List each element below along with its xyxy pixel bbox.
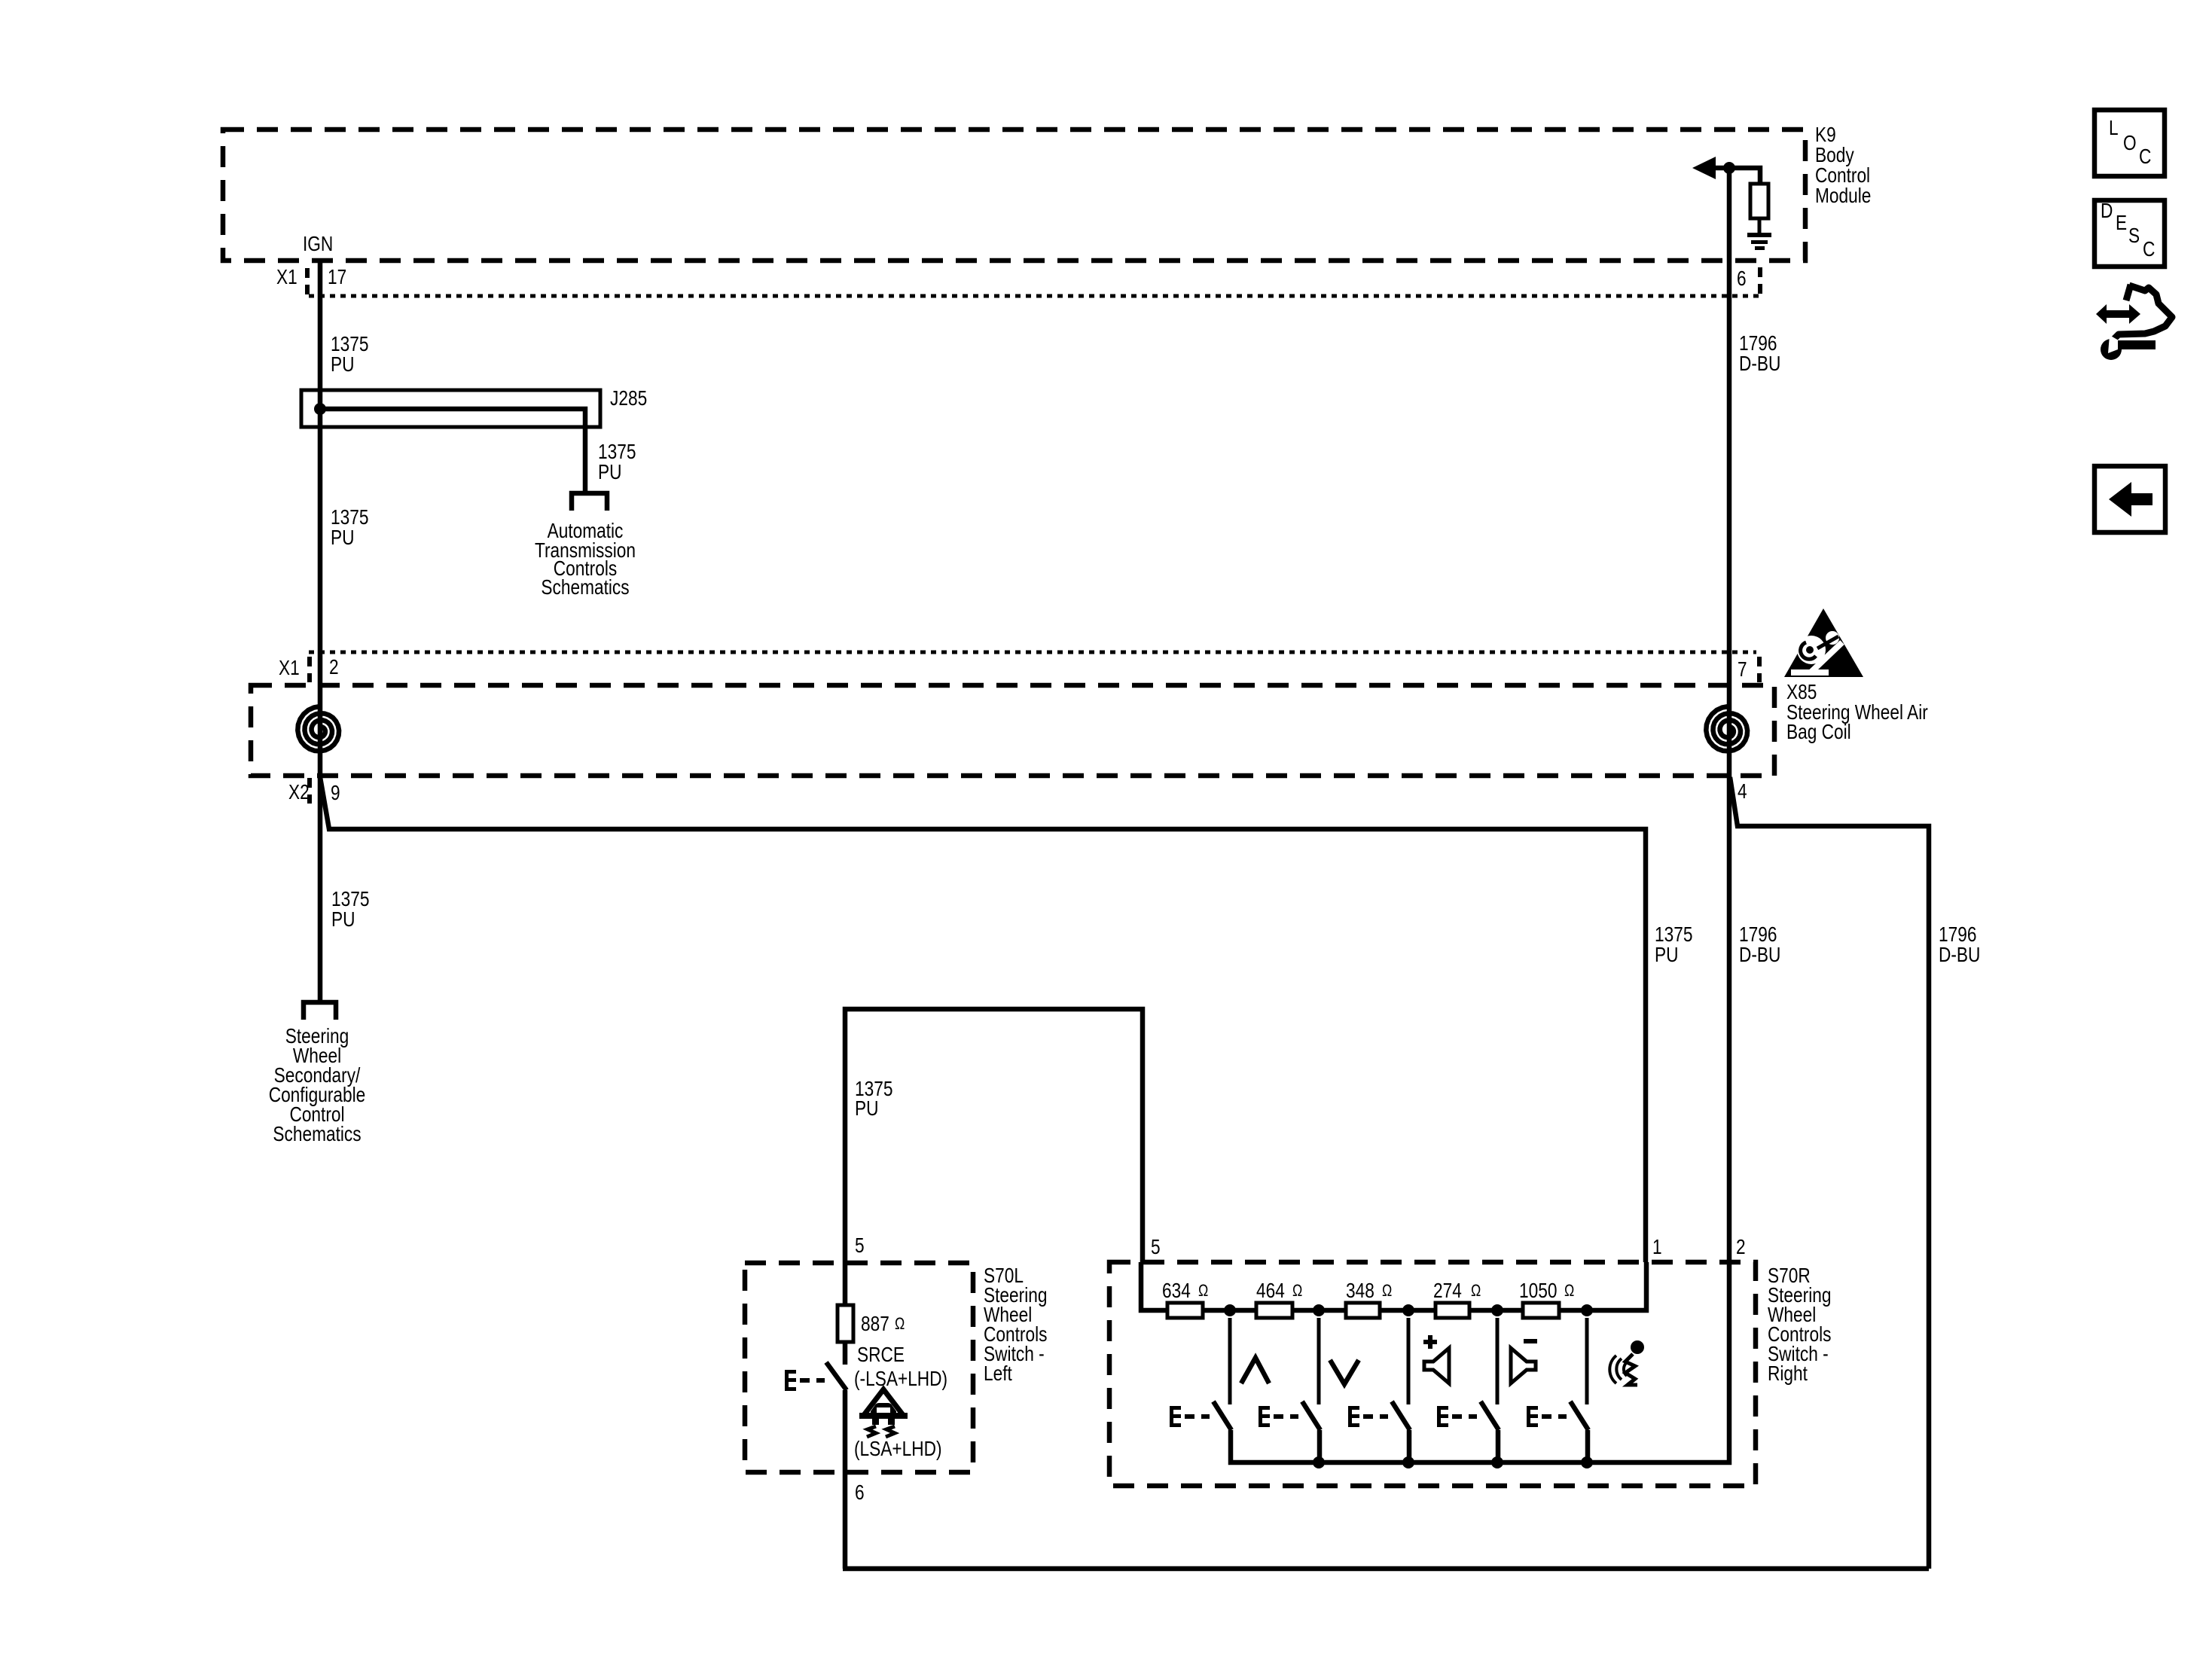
wire: switch to pin 6 and down to bus [843, 1390, 848, 1569]
wire label 1375 PU (S70R pin 1) [1655, 923, 1693, 966]
wire label 1375 PU (below pin 17) [331, 332, 369, 376]
junction dots on ladder [1224, 1304, 1593, 1316]
icon volume up chevron [1241, 1358, 1269, 1383]
wire: S70R pin 5 to resistor ladder to pin 1 [1141, 1262, 1646, 1310]
wire label 1375 PU (J285 branch) [598, 440, 636, 483]
svg-text:Module: Module [1815, 184, 1871, 207]
svg-text:D-BU: D-BU [1739, 352, 1780, 375]
switch SRCE: dashes [800, 1378, 825, 1383]
svg-text:PU: PU [855, 1096, 879, 1120]
switch S70R volume- (x1988) [1437, 1318, 1499, 1462]
label 464 ohm [1256, 1279, 1302, 1302]
label S70R Steering Wheel Controls Switch - Right [1768, 1264, 1832, 1385]
connector X1 row (X85 coil, pins 2/7): dotted line [309, 651, 1756, 654]
svg-text:O: O [2123, 131, 2137, 154]
svg-text:2: 2 [329, 655, 339, 679]
svg-text:Schematics: Schematics [541, 575, 629, 599]
connector X1 mark right (pin 6) [1758, 267, 1762, 294]
wire label 1375 PU (left wire to bracket) [331, 887, 370, 931]
svg-text:D-BU: D-BU [1739, 943, 1780, 966]
mark right (pin 7) [1757, 657, 1762, 682]
DESC letters [2101, 199, 2155, 261]
svg-text:9: 9 [331, 781, 340, 804]
K9 label [1815, 123, 1871, 207]
label 887 ohm [861, 1312, 905, 1335]
svg-text:C: C [2143, 237, 2155, 261]
resistor 1050 ohm [1523, 1303, 1559, 1318]
resistor 634 ohm [1167, 1303, 1203, 1318]
svg-text:Ω: Ω [895, 1314, 905, 1333]
svg-text:2: 2 [1736, 1235, 1746, 1258]
svg-text:PU: PU [331, 352, 355, 376]
svg-text:464: 464 [1256, 1279, 1285, 1302]
svg-text:IGN: IGN [303, 232, 333, 255]
wire resistor to ground [1758, 218, 1762, 234]
svg-text:887: 887 [861, 1312, 889, 1335]
svg-text:J285: J285 [610, 386, 647, 410]
svg-text:Schematics: Schematics [273, 1122, 361, 1145]
junction dot (K9) [1723, 162, 1735, 174]
switch SRCE: E symbol [785, 1370, 796, 1391]
wire: J285 splice branch [320, 409, 585, 491]
off-page bracket: Automatic Transmission Controls Schematics [572, 493, 607, 511]
tools / arrows icon [2096, 285, 2172, 360]
DESC reference box [2095, 200, 2165, 267]
icon volume down chevron [1330, 1360, 1359, 1384]
connector X1 mark left [305, 268, 310, 294]
wire: jumper between S70L pin 5 and S70R pin 5 [845, 1009, 1143, 1263]
svg-text:348: 348 [1346, 1279, 1374, 1302]
icon speaker + [1423, 1335, 1449, 1383]
svg-text:PU: PU [331, 526, 355, 549]
coil spiral right [1706, 706, 1747, 751]
svg-text:D: D [2101, 199, 2113, 222]
splice J285 box [301, 390, 600, 427]
back arrow [2109, 482, 2153, 517]
svg-text:E: E [2116, 211, 2127, 234]
S70L Steering Wheel Controls Switch - Left dashed box [745, 1263, 973, 1472]
label 1050 ohm [1519, 1279, 1574, 1302]
wire label 1796 D-BU (below pin 6) [1739, 331, 1780, 375]
resistor (K9 internal) [1750, 184, 1768, 218]
svg-text:Left: Left [984, 1362, 1012, 1385]
coil spiral left [297, 706, 339, 751]
svg-text:SRCE: SRCE [857, 1343, 905, 1366]
svg-text:6: 6 [855, 1481, 865, 1504]
switch S70R volume down (x1751) [1259, 1318, 1320, 1462]
svg-text:D-BU: D-BU [1939, 943, 1980, 966]
svg-text:X1: X1 [276, 265, 297, 288]
svg-text:Bag Coil: Bag Coil [1786, 720, 1851, 743]
LOC reference box [2095, 110, 2165, 176]
svg-text:17: 17 [328, 265, 346, 288]
svg-text:Ω: Ω [1198, 1281, 1208, 1300]
wire label 1375 PU (left wire below J285) [331, 505, 369, 549]
back arrow box [2095, 466, 2165, 532]
wire: S70L pin 5 through switch to pin 6 and bottom bus [843, 1263, 848, 1365]
wire: K9 pin 6 output, down through X85 coil to S70R pin 2 [1727, 168, 1732, 1262]
svg-text:274: 274 [1433, 1279, 1462, 1302]
resistor 464 ohm [1256, 1303, 1292, 1318]
resistor 348 ohm [1346, 1303, 1380, 1318]
connector X2 mark left (pin 9) [307, 778, 312, 804]
svg-text:4: 4 [1738, 779, 1747, 803]
svg-text:5: 5 [1151, 1235, 1161, 1258]
svg-text:Ω: Ω [1382, 1281, 1392, 1300]
wire: S70R internal bus [1231, 1262, 1729, 1462]
icon speaker - [1511, 1341, 1537, 1383]
junction dot at J285 [314, 403, 326, 415]
icon voice recognition [1609, 1340, 1644, 1385]
K9 Body Control Module dashed box [223, 130, 1805, 261]
X85 Steering Wheel Air Bag Coil dashed box [251, 685, 1774, 776]
switch SRCE: blade [826, 1362, 847, 1390]
bottom bus wire to 1796 D-BU branch [843, 1566, 1929, 1572]
K9 internal: left arrow [1692, 157, 1716, 179]
wire label 1375 PU (jumper) [855, 1077, 893, 1120]
label Steering Wheel Secondary/Configurable Control Schematics [269, 1024, 366, 1145]
wire: coil pin 4 branch to right side 1796 D-BU [1730, 777, 1929, 1569]
svg-text:634: 634 [1162, 1279, 1191, 1302]
wire: coil pin 9 branch to S70R pin 1 [320, 777, 1646, 1262]
svg-text:S: S [2128, 224, 2140, 247]
air bag warning triangle [1784, 608, 1863, 677]
svg-text:(LSA+LHD): (LSA+LHD) [854, 1437, 942, 1460]
svg-text:X1: X1 [279, 656, 300, 679]
wire label 1796 D-BU (right branch) [1939, 923, 1980, 966]
svg-text:L: L [2109, 116, 2119, 139]
resistor 274 ohm [1436, 1303, 1469, 1318]
label 348 ohm [1346, 1279, 1392, 1302]
svg-text:5: 5 [855, 1234, 865, 1257]
connector X1 row (K9): dotted line [309, 294, 1761, 298]
K9 internal: wire from arrow to resistor [1710, 168, 1760, 184]
svg-text:C: C [2139, 145, 2151, 168]
switch S70R volume up (pin wire x1633) [1170, 1318, 1231, 1430]
wire: IGN feed, K9 X1 pin17 down to J285 and on to X85 coil and bracket [318, 261, 323, 1000]
label S70L Steering Wheel Controls Switch - Left [984, 1264, 1048, 1385]
LSA icon (car with skid marks) [859, 1389, 908, 1437]
svg-text:PU: PU [331, 907, 355, 931]
label X85 Steering Wheel Air Bag Coil [1786, 680, 1928, 743]
switch S70R voice recognition (x2107) [1527, 1318, 1588, 1462]
svg-text:PU: PU [598, 460, 622, 483]
label 634 ohm [1162, 1279, 1208, 1302]
ground (K9 internal) [1747, 233, 1771, 250]
label 274 ohm [1433, 1279, 1481, 1302]
LOC letters [2109, 116, 2151, 168]
svg-text:X2: X2 [288, 780, 310, 804]
svg-text:1050: 1050 [1519, 1279, 1558, 1302]
svg-text:1: 1 [1652, 1235, 1662, 1258]
S70R Steering Wheel Controls Switch - Right dashed box [1109, 1262, 1756, 1486]
svg-text:(-LSA+LHD): (-LSA+LHD) [854, 1367, 947, 1390]
mark left (pin 2) [307, 657, 312, 682]
junction dots on bus [1313, 1456, 1593, 1468]
label Automatic Transmission Controls Schematics [535, 519, 636, 599]
resistor 887 ohm (S70L) [838, 1305, 853, 1342]
svg-text:7: 7 [1738, 657, 1747, 681]
svg-text:Ω: Ω [1564, 1281, 1574, 1300]
svg-text:Ω: Ω [1292, 1281, 1302, 1300]
switch S70R volume+ (x1870) [1348, 1318, 1410, 1462]
svg-text:PU: PU [1655, 943, 1679, 966]
svg-text:Right: Right [1768, 1362, 1808, 1385]
svg-text:6: 6 [1737, 267, 1747, 290]
off-page bracket: Steering Wheel Secondary/Configurable Control Schematics [304, 1002, 336, 1020]
wire label 1796 D-BU (S70R pin 2) [1739, 923, 1780, 966]
svg-text:Ω: Ω [1471, 1281, 1481, 1300]
